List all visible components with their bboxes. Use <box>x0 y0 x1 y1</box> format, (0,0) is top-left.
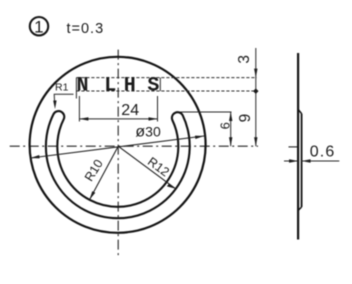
svg-text:R1: R1 <box>55 81 69 93</box>
side view bump chamfer top <box>298 109 302 113</box>
side view center line tick <box>289 146 298 148</box>
vertical center line <box>117 50 119 257</box>
R10 arrow <box>90 191 96 200</box>
dim 9 bottom arrow <box>254 137 257 146</box>
C-shaped slot (R10/R12 arcs with round ends) <box>46 111 190 218</box>
balloon circle 1 <box>30 17 48 35</box>
letter box left edge <box>75 78 77 99</box>
letter box top dashed line <box>76 77 256 79</box>
svg-text:1: 1 <box>34 17 43 36</box>
dim 0.6 right tail <box>302 160 340 162</box>
outer circle of washer <box>30 57 206 233</box>
R12 leader line <box>118 146 176 189</box>
dim 6 bottom arrow <box>229 137 232 146</box>
svg-text:H: H <box>124 75 136 98</box>
svg-text:L: L <box>104 75 116 98</box>
side view bump line <box>301 114 303 207</box>
side view main edge line <box>297 53 299 240</box>
junction diamond <box>253 88 259 94</box>
dim 6 line <box>230 112 232 146</box>
dim 24 left arrow <box>79 117 88 120</box>
svg-text:24: 24 <box>121 102 139 119</box>
svg-text:3: 3 <box>236 55 253 64</box>
letter box right edge <box>159 78 161 91</box>
side view bump chamfer bottom <box>298 207 302 211</box>
R1 leader shelf <box>54 94 73 103</box>
svg-text:S: S <box>147 75 159 98</box>
dia 30 left arrow <box>31 155 40 158</box>
svg-text:t=0.3: t=0.3 <box>67 21 105 37</box>
svg-text:9: 9 <box>237 114 254 123</box>
dim 24 dimension line <box>79 118 157 120</box>
right dims vertical line x256 <box>255 48 257 146</box>
dia 30 right arrow <box>195 136 204 139</box>
dim 24 right extension line <box>157 96 159 122</box>
svg-text:R10: R10 <box>82 157 106 184</box>
R10 leader line <box>90 146 119 200</box>
dia 30 leader line <box>31 136 205 158</box>
slot cap extension line for dim 6 <box>180 111 232 113</box>
dim 0.6 left arrow <box>289 159 298 162</box>
dim 0.6 left tail <box>284 160 298 162</box>
svg-text:0.6: 0.6 <box>310 144 336 161</box>
letter box baseline dashed line <box>76 90 256 92</box>
horizontal center line <box>10 145 258 147</box>
dim 0.6 right arrow <box>302 159 311 162</box>
dim 24 right arrow <box>149 117 158 120</box>
svg-text:ø30: ø30 <box>135 124 161 141</box>
svg-text:N: N <box>76 75 88 98</box>
dim 6 top arrow <box>229 112 232 121</box>
R12 arrow <box>167 184 176 189</box>
svg-text:6: 6 <box>217 122 232 129</box>
dim 3 down arrow <box>254 69 257 78</box>
R1 arrow <box>53 100 56 109</box>
dim 24 left extension line <box>78 96 80 122</box>
